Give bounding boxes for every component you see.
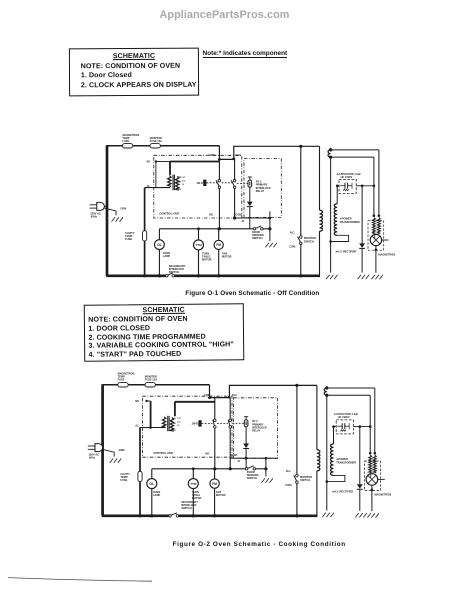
svg-text:MAGNETRON: MAGNETRON (378, 252, 395, 256)
svg-text:HG.: HG. (209, 212, 214, 216)
svg-text:FUSE: FUSE (120, 478, 127, 482)
svg-text:FUSE: FUSE (118, 377, 125, 381)
svg-text:21V: 21V (177, 422, 181, 424)
svg-text:JW-D: JW-D (196, 181, 203, 185)
svg-text:AL: AL (135, 424, 139, 428)
svg-text:FUSE: FUSE (122, 139, 129, 143)
svg-text:FM: FM (216, 243, 221, 247)
svg-text:FUSE 15A: FUSE 15A (145, 378, 157, 382)
svg-text:SWITCH: SWITCH (304, 239, 314, 243)
svg-text:AL: AL (147, 184, 151, 188)
svg-text:MAGNETRON: MAGNETRON (374, 493, 391, 497)
svg-text:COM: COM (285, 483, 292, 487)
svg-text:NO: NO (205, 451, 209, 455)
svg-text:TTM: TTM (190, 482, 197, 486)
svg-text:LVT: LVT (177, 418, 182, 420)
svg-text:TRANSFORMER: TRANSFORMER (340, 220, 360, 224)
svg-text:GRN: GRN (120, 207, 126, 211)
svg-text:MOTOR: MOTOR (222, 254, 232, 258)
svg-text:LAMP: LAMP (163, 254, 171, 258)
svg-text:N.C.: N.C. (286, 469, 292, 473)
svg-text:OL: OL (149, 482, 155, 486)
svg-text:FUSE: FUSE (125, 237, 132, 241)
svg-text:MOTOR: MOTOR (192, 496, 202, 500)
svg-text:COM.: COM. (235, 212, 242, 216)
svg-text:LAMP: LAMP (153, 493, 161, 497)
svg-text:TTM: TTM (195, 243, 202, 247)
svg-text:GRN: GRN (119, 448, 125, 452)
svg-text:RELAY: RELAY (252, 429, 261, 433)
svg-text:21V: 21V (182, 180, 186, 182)
svg-text:✳H.V. RECTIFIER: ✳H.V. RECTIFIER (335, 249, 356, 253)
svg-text:FM: FM (212, 482, 217, 486)
svg-text:SWITCH: SWITCH (169, 270, 180, 274)
svg-text:LVT: LVT (182, 177, 187, 179)
svg-text:RELAY: RELAY (256, 189, 265, 193)
svg-text:COM.: COM. (204, 393, 211, 397)
svg-text:COM.: COM. (209, 153, 216, 157)
svg-text:M: M (238, 459, 240, 463)
svg-text:HC 2100V: HC 2100V (341, 175, 353, 179)
svg-text:M: M (242, 219, 244, 223)
svg-text:SWITCH: SWITCH (300, 478, 310, 482)
svg-text:3V: 3V (182, 184, 185, 186)
svg-text:SWITCH: SWITCH (252, 236, 263, 240)
svg-text:CONTROL UNIT: CONTROL UNIT (153, 451, 173, 455)
svg-text:3V: 3V (177, 425, 180, 427)
svg-text:✳H.V. RECTIFIER: ✳H.V. RECTIFIER (332, 489, 353, 493)
svg-text:CONTROL UNIT: CONTROL UNIT (159, 212, 179, 216)
svg-text:60Hz: 60Hz (89, 456, 96, 460)
svg-text:N.O.: N.O. (236, 153, 242, 157)
svg-text:OL: OL (157, 243, 163, 247)
svg-text:N.O.: N.O. (232, 393, 238, 397)
svg-text:TRANSFORMER: TRANSFORMER (336, 460, 356, 464)
svg-text:COM.: COM. (231, 453, 238, 457)
svg-text:COM: COM (289, 244, 296, 248)
svg-text:BV: BV (147, 160, 151, 164)
svg-text:JW-D: JW-D (192, 422, 199, 426)
svg-text:HC 2100V: HC 2100V (338, 415, 350, 419)
svg-text:NO: NO (135, 399, 139, 403)
svg-text:MOTOR: MOTOR (216, 493, 226, 497)
svg-text:60Hz: 60Hz (91, 214, 98, 218)
svg-text:N.C.: N.C. (290, 231, 296, 235)
svg-text:MOTOR: MOTOR (202, 257, 212, 261)
svg-text:FUSE 15A: FUSE 15A (150, 139, 162, 143)
svg-text:SWITCH: SWITCH (181, 506, 192, 510)
svg-text:SWITCH: SWITCH (247, 476, 258, 480)
